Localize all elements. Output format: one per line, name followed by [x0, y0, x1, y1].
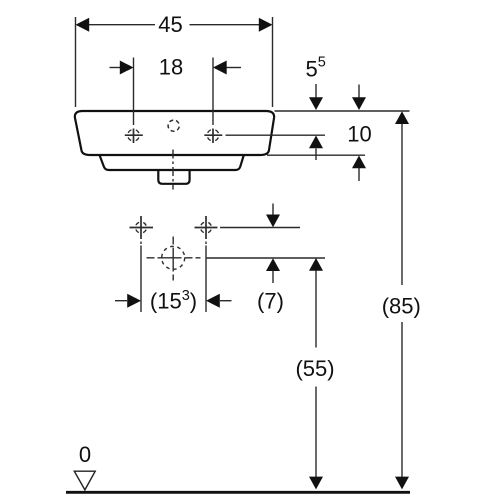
svg-text:0: 0 [79, 442, 91, 467]
svg-text:(153): (153) [150, 288, 197, 314]
svg-text:(55): (55) [295, 356, 334, 381]
svg-text:45: 45 [158, 12, 182, 37]
svg-text:10: 10 [347, 122, 371, 147]
svg-text:18: 18 [159, 55, 183, 80]
svg-text:(7): (7) [257, 289, 284, 314]
svg-text:(85): (85) [382, 294, 421, 319]
